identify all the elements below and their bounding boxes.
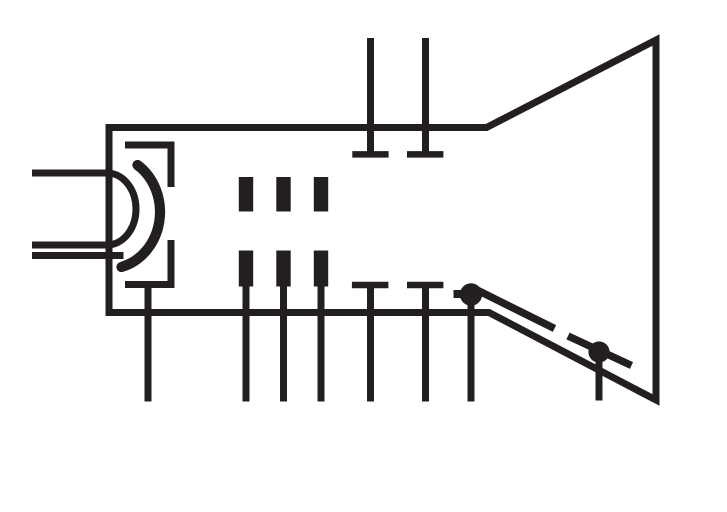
node N1 stub <box>454 290 465 298</box>
wire deflection plate D3 lead <box>367 285 374 402</box>
wire cathode lead <box>32 252 124 259</box>
anode A3 top dash <box>314 177 328 212</box>
node N2 (junction dot) <box>588 341 609 362</box>
deflection plate D1 <box>352 151 388 158</box>
node N1 (junction dot) <box>460 283 482 305</box>
deflection plate D4 <box>407 282 443 289</box>
wire heater lead bottom <box>32 242 106 249</box>
wire node N2 lead <box>596 351 603 401</box>
envelope (CRT tube body) <box>109 40 656 400</box>
heater H (semicircular filament) <box>107 173 136 245</box>
wire anode A1 lead <box>243 284 250 402</box>
anode A1 top dash <box>239 177 253 212</box>
wire deflection plate D4 lead <box>422 285 429 402</box>
anode A3 bottom dash <box>314 251 328 287</box>
anode A2 bottom dash <box>276 251 290 287</box>
grid G1 modulator bracket top <box>125 145 171 187</box>
resistive coating segment 2 <box>568 336 632 366</box>
wire anode A3 lead <box>318 284 325 402</box>
wire deflection plate D2 lead <box>422 38 429 154</box>
wire deflection plate D1 lead <box>367 38 374 154</box>
grid G1 modulator bracket bottom <box>125 240 171 285</box>
wire modulator lead <box>145 285 152 402</box>
wire node N1 lead <box>468 294 475 402</box>
anode A1 bottom dash <box>239 251 253 287</box>
wire heater lead top <box>32 170 106 177</box>
cathode K end blob <box>133 161 143 171</box>
resistive coating segment 1 <box>474 289 555 329</box>
anode A2 top dash <box>276 177 290 212</box>
deflection plate D3 <box>352 282 389 289</box>
cathode K (arc) <box>122 165 161 267</box>
deflection plate D2 <box>407 151 443 158</box>
wire anode A2 lead <box>280 284 287 402</box>
